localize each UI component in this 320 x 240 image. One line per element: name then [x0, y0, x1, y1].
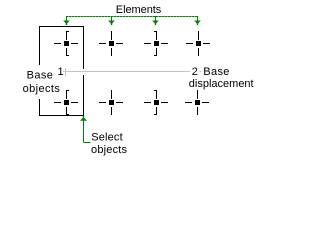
svg-text:Base: Base: [27, 70, 54, 82]
svg-text:objects: objects: [91, 144, 128, 156]
svg-text:Select: Select: [91, 132, 122, 144]
svg-text:2: 2: [192, 66, 198, 78]
svg-text:objects: objects: [23, 83, 61, 95]
svg-text:Base: Base: [203, 66, 229, 78]
svg-text:1: 1: [58, 66, 64, 78]
svg-text:Elements: Elements: [116, 4, 162, 16]
svg-text:displacement: displacement: [189, 78, 254, 90]
